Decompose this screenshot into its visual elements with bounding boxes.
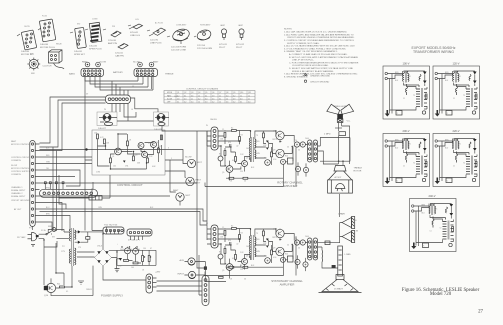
- svg-text:6.0: 6.0: [205, 98, 207, 100]
- svg-text:AT OUT: AT OUT: [14, 208, 22, 211]
- svg-text:MOTOR PLUG: MOTOR PLUG: [40, 47, 55, 49]
- svg-text:27: 27: [478, 310, 483, 315]
- svg-text:PILOT: PILOT: [236, 47, 243, 49]
- svg-text:TREBLE: TREBLE: [165, 74, 174, 76]
- svg-text:0.2: 0.2: [198, 98, 200, 100]
- svg-text:FAST: FAST: [196, 179, 202, 182]
- svg-text:0.4: 0.4: [191, 102, 193, 104]
- svg-text:145-032: 145-032: [89, 46, 98, 48]
- svg-text:CR9: CR9: [118, 266, 121, 268]
- svg-text:D. SELECT SLM CAP BATTELY-STRI: D. SELECT SLM CAP BATTELY-STRIP, VOLTAGE…: [289, 67, 353, 70]
- svg-text:0.1: 0.1: [66, 291, 68, 293]
- svg-text:CONTROL CIRCUIT: CONTROL CIRCUIT: [117, 183, 143, 187]
- lamp bulb 1: [219, 29, 228, 46]
- svg-text:COMMON: COMMON: [11, 160, 21, 162]
- svg-text:CIRCUIT GROUND UNLESS OTHERWIS: CIRCUIT GROUND UNLESS OTHERWISE NOTED AS…: [287, 36, 355, 39]
- driver terminals: [335, 123, 350, 165]
- rectifier diode CR3: [78, 230, 81, 233]
- svg-text:WHT: WHT: [46, 194, 50, 196]
- power switch S2: [47, 231, 52, 234]
- svg-text:P6: P6: [104, 109, 106, 111]
- svg-text:0.3: 0.3: [184, 98, 186, 100]
- transformer box 100V: [383, 66, 430, 119]
- crossover cap C33: [303, 262, 308, 267]
- voltage table: [164, 88, 255, 104]
- svg-text:SHLD: SHLD: [46, 187, 51, 189]
- svg-text:AMP PIN: AMP PIN: [108, 42, 117, 45]
- svg-text:122-153 HORN: 122-153 HORN: [171, 47, 186, 49]
- svg-text:Q6: Q6: [212, 92, 214, 94]
- pad tap resistor: [332, 265, 336, 268]
- tweeter cone 2: [342, 231, 355, 243]
- svg-text:072-012: 072-012: [236, 44, 245, 46]
- svg-text:HORN ASSY: HORN ASSY: [200, 24, 211, 27]
- svg-text:AMPLIFIER: AMPLIFIER: [283, 184, 298, 188]
- resistor R2: [104, 139, 106, 144]
- svg-text:Q2: Q2: [148, 143, 150, 145]
- svg-text:CR1: CR1: [125, 166, 128, 168]
- svg-text:2N3055: 2N3055: [86, 289, 92, 291]
- tweeter cone 1: [342, 217, 355, 229]
- resistor R41: [148, 256, 150, 262]
- svg-text:12: 12: [198, 95, 200, 97]
- top row part numbers: [24, 16, 244, 56]
- wire relays link: [117, 112, 154, 121]
- svg-text:WOOFER: WOOFER: [334, 291, 344, 293]
- svg-text:072-011: 072-011: [219, 44, 228, 46]
- svg-text:100: 100: [131, 267, 134, 269]
- svg-text:C. FOR OTHER FASTENER AFTER FI: C. FOR OTHER FASTENER AFTER FITS SELECT …: [289, 61, 359, 64]
- svg-text:1.1: 1.1: [240, 95, 242, 97]
- svg-text:LAMP: LAMP: [238, 24, 244, 27]
- svg-text:MOTOR CONTROL: MOTOR CONTROL: [11, 144, 30, 146]
- resistor R5: [133, 156, 135, 161]
- crossover cap C30: [295, 166, 300, 171]
- svg-text:ROTOR: ROTOR: [354, 171, 362, 173]
- wire horn feed: [338, 136, 340, 165]
- input jack CH2: [178, 271, 196, 278]
- svg-text:LINE, IF SET IN FULL.: LINE, IF SET IN FULL.: [292, 60, 315, 62]
- resistor R4: [127, 141, 129, 146]
- horn driver block: [337, 114, 343, 119]
- pilot lamp assembly 2: [196, 28, 212, 47]
- striped connector block: [89, 22, 102, 47]
- svg-text:SLOW: SLOW: [133, 62, 140, 64]
- svg-text:0.1: 0.1: [219, 98, 221, 100]
- svg-text:0.9: 0.9: [233, 98, 235, 100]
- svg-text:AC PLUG: AC PLUG: [155, 22, 163, 25]
- svg-text:6.3: 6.3: [240, 98, 242, 100]
- svg-text:220-V: 220-V: [453, 129, 460, 133]
- svg-text:123-010: 123-010: [108, 40, 117, 42]
- svg-text:6.2: 6.2: [233, 95, 235, 97]
- svg-text:146-027: 146-027: [98, 128, 107, 130]
- svg-text:0.4: 0.4: [226, 95, 228, 97]
- input divider resistor: [204, 266, 207, 269]
- svg-text:Q5: Q5: [205, 92, 207, 94]
- svg-text:0.5: 0.5: [212, 98, 214, 100]
- rotor bell assembly: [328, 166, 353, 194]
- svg-text:CIRCUIT GROUND: CIRCUIT GROUND: [310, 81, 330, 83]
- svg-text:LINE PLUG: LINE PLUG: [150, 42, 162, 44]
- svg-text:MOT: MOT: [186, 195, 192, 197]
- svg-text:123-011: 123-011: [115, 53, 124, 55]
- rotary switch wafer: [27, 58, 40, 75]
- svg-text:070-041: 070-041: [130, 32, 139, 34]
- notes text block: [284, 29, 359, 84]
- svg-text:Q1: Q1: [177, 92, 179, 94]
- svg-text:2. ALL FIXED CAPS. AND SMALLER: 2. ALL FIXED CAPS. AND SMALLER VALUES AR…: [284, 33, 354, 36]
- socket strip: [74, 27, 88, 53]
- svg-text:11: 11: [248, 98, 250, 100]
- svg-text:B. SET 6-/7- MOTORS, APPLY APP: B. SET 6-/7- MOTORS, APPLY APPROXIMATELY…: [289, 56, 359, 59]
- relay K2: [154, 112, 170, 131]
- svg-text:SLOW: SLOW: [100, 62, 107, 64]
- svg-text:PLUG: PLUG: [42, 16, 47, 18]
- svg-text:CR5-8: CR5-8: [97, 246, 102, 248]
- svg-text:146-035: 146-035: [21, 51, 30, 53]
- resistor R43: [133, 262, 138, 264]
- svg-text:LINE LUG: LINE LUG: [130, 35, 140, 37]
- woofer magnet: [336, 275, 344, 280]
- rectifier wires: [75, 232, 103, 242]
- svg-text:12: 12: [198, 102, 200, 104]
- svg-text:100: 100: [113, 166, 116, 168]
- svg-text:CONN: CONN: [92, 19, 98, 21]
- svg-text:AMPLIFIER: AMPLIFIER: [280, 283, 295, 287]
- horn right wing: [341, 104, 354, 114]
- svg-text:SLOW: SLOW: [11, 165, 17, 167]
- relay K1: [97, 112, 117, 130]
- svg-text:8. GROUND SYMBOLS:: 8. GROUND SYMBOLS:: [284, 76, 308, 78]
- svg-text:470: 470: [159, 146, 162, 148]
- console multipin connector: [40, 182, 98, 209]
- resistor R42: [124, 260, 129, 262]
- svg-text:Q3: Q3: [191, 92, 193, 94]
- svg-text:CHANNEL 1: CHANNEL 1: [11, 186, 23, 189]
- svg-text:122-070: 122-070: [150, 40, 159, 42]
- knob SLOW (bass): [96, 62, 101, 67]
- svg-text:1 PAIR: 1 PAIR: [338, 213, 345, 216]
- svg-text:2 MFD: 2 MFD: [324, 134, 331, 136]
- transformer box 120V: [433, 66, 480, 119]
- speaker column wires: [338, 246, 343, 276]
- junction blob: [85, 148, 87, 150]
- connector plug P1 (9-pin): [39, 19, 55, 46]
- svg-text:120-V: 120-V: [453, 62, 460, 66]
- svg-text:FAST: FAST: [11, 140, 17, 143]
- svg-text:SLOW: SLOW: [185, 157, 192, 159]
- svg-text:Q3: Q3: [135, 155, 137, 157]
- transformer box 240V: [410, 199, 457, 252]
- transistor Q4: [151, 142, 157, 148]
- woofer cone: [319, 280, 362, 293]
- series cap: [325, 241, 330, 245]
- svg-text:SPKR PLUG: SPKR PLUG: [89, 48, 102, 50]
- connector top stubs: [45, 182, 93, 189]
- stationary output wires: [298, 223, 343, 272]
- terminal strip TS2: [127, 229, 152, 242]
- strip labels: [11, 140, 31, 211]
- control internal wires: [98, 134, 162, 169]
- svg-text:12: 12: [219, 102, 221, 104]
- power supply value labels: [41, 229, 152, 293]
- diode CR1: [123, 161, 126, 163]
- svg-text:0.6: 0.6: [191, 95, 193, 97]
- pilot lamp assembly 1: [171, 27, 191, 48]
- crossover cap C32: [295, 259, 300, 264]
- svg-text:MODE: MODE: [167, 92, 173, 94]
- svg-text:0.2: 0.2: [233, 102, 235, 104]
- svg-text:122-153 CONE: 122-153 CONE: [171, 49, 186, 51]
- transistor Q1: [115, 148, 122, 155]
- svg-text:12: 12: [226, 98, 228, 100]
- svg-text:6. WHERE "FAST / SLOW" INDICAT: 6. WHERE "FAST / SLOW" INDICATED SEPARAT…: [284, 50, 338, 53]
- power transformer T1: [62, 228, 76, 266]
- svg-text:COM: COM: [96, 172, 101, 174]
- svg-text:Q2: Q2: [184, 92, 186, 94]
- crossover cap C31: [303, 167, 308, 172]
- svg-text:2000: 2000: [120, 249, 124, 251]
- terminal block TB2: [59, 175, 110, 200]
- svg-text:MOT: MOT: [197, 162, 203, 164]
- svg-text:CAB PIN: CAB PIN: [115, 54, 124, 57]
- svg-text:+28V: +28V: [155, 272, 161, 274]
- svg-text:Q4: Q4: [156, 142, 158, 144]
- small plug a: [108, 31, 121, 42]
- svg-text:L PAD: L PAD: [345, 253, 351, 256]
- svg-text:11: 11: [191, 98, 193, 100]
- svg-text:SW: SW: [30, 54, 33, 56]
- relay box (3D): [43, 50, 65, 69]
- knob FAST (treble): [149, 62, 154, 67]
- svg-text:2000: 2000: [128, 249, 132, 251]
- stationary feedback rail: [205, 236, 296, 275]
- svg-text:0.6: 0.6: [226, 102, 228, 104]
- svg-text:15 WATT: 15 WATT: [334, 288, 344, 291]
- svg-text:Model 720: Model 720: [430, 292, 452, 297]
- svg-text:I.D.8-WITH FORCE HOLDING LEAD.: I.D.8-WITH FORCE HOLDING LEAD.: [292, 64, 329, 67]
- driver base box: [337, 119, 343, 123]
- transistor Q3: [142, 152, 148, 158]
- rotary channel amplifier circuit: [206, 125, 318, 183]
- svg-text:5.9: 5.9: [212, 95, 214, 97]
- svg-text:145-031: 145-031: [74, 51, 83, 53]
- rotary speaker wires: [294, 138, 351, 177]
- svg-text:200-V: 200-V: [403, 129, 410, 133]
- power supply wires: [39, 189, 156, 296]
- svg-text:240-V: 240-V: [429, 194, 436, 198]
- bridge rectifier CR5-8: [95, 249, 112, 266]
- wires to motors: [165, 160, 187, 206]
- svg-text:TRANSFORMER WIRING: TRANSFORMER WIRING: [413, 50, 454, 54]
- svg-text:SIGNAL INPUT: SIGNAL INPUT: [11, 195, 26, 198]
- transistor Q2: [138, 143, 144, 149]
- svg-text:SPKR SKT: SPKR SKT: [74, 54, 85, 56]
- svg-text:Q9: Q9: [233, 92, 235, 94]
- svg-text:BASS: BASS: [69, 73, 75, 76]
- svg-text:FAST: FAST: [82, 61, 88, 64]
- motor M1 slow: [185, 157, 203, 168]
- matching pad box: [339, 132, 346, 136]
- resistor R3: [110, 158, 112, 163]
- connector socket S1 (9-pin): [21, 30, 37, 53]
- svg-text:11: 11: [219, 95, 221, 97]
- svg-text:117 VAC: 117 VAC: [17, 236, 26, 239]
- svg-text:TS1 TS2 TS3: TS1 TS2 TS3: [104, 225, 118, 227]
- svg-text:1. ALL CAP. VALUES IN MF, 25 V: 1. ALL CAP. VALUES IN MF, 25 VOLTS D.C. …: [284, 31, 348, 34]
- svg-text:CLUTCH: CLUTCH: [43, 66, 52, 68]
- svg-text:CHASSIS GROUND: CHASSIS GROUND: [310, 74, 330, 77]
- leader arrows: [17, 25, 196, 37]
- svg-text:16-PIN: 16-PIN: [24, 26, 30, 28]
- svg-text:INPUT: INPUT: [178, 274, 185, 276]
- ground chassis: [78, 281, 84, 284]
- svg-text:AUX: AUX: [180, 259, 185, 262]
- svg-text:150: 150: [143, 248, 146, 250]
- svg-text:R44: R44: [57, 284, 60, 286]
- cable plug: [149, 28, 166, 42]
- svg-text:LUG: LUG: [135, 19, 139, 21]
- svg-text:CAB SIG: CAB SIG: [210, 118, 218, 121]
- svg-text:0.2: 0.2: [212, 102, 214, 104]
- svg-text:5: 5: [171, 158, 172, 160]
- svg-text:A. CONNECT CLEAR LEAD OF PLUG: A. CONNECT CLEAR LEAD OF PLUG AS SMOOTH …: [289, 53, 348, 56]
- svg-text:V.C.: V.C.: [347, 121, 351, 123]
- wires junction down: [112, 104, 128, 113]
- svg-text:6.1: 6.1: [184, 95, 186, 97]
- jack wires: [184, 262, 226, 282]
- resistor R7: [158, 148, 160, 153]
- svg-text:12: 12: [248, 95, 250, 97]
- resistor R6: [147, 158, 149, 163]
- svg-text:RELAY: RELAY: [56, 43, 63, 46]
- chassis ground hatch: [115, 269, 120, 272]
- resistor R44: [60, 286, 65, 288]
- svg-text:5. X VOLT READING TO CHAS. FOR: 5. X VOLT READING TO CHAS. FOR ALL TEST …: [284, 47, 346, 50]
- motor M3: [173, 189, 191, 201]
- svg-text:CONE ASSY: CONE ASSY: [176, 24, 187, 27]
- svg-text:6.1: 6.1: [240, 102, 242, 104]
- svg-text:Q8: Q8: [226, 92, 228, 94]
- svg-text:122-154: 122-154: [197, 45, 206, 47]
- svg-text:SUPPLY COMMON, NOT CHAS.: SUPPLY COMMON, NOT CHAS.: [287, 42, 320, 45]
- junction connector J1: [106, 95, 131, 104]
- svg-text:LAMP: LAMP: [220, 24, 226, 27]
- bus junction to left risers: [40, 97, 340, 232]
- svg-text:SIGNAL INPUT: SIGNAL INPUT: [11, 189, 26, 192]
- svg-text:0.3: 0.3: [205, 102, 207, 104]
- regulator transistor Q14: [44, 283, 56, 297]
- terminal strip BASS: [81, 69, 104, 77]
- svg-text:COMMON: COMMON: [11, 174, 21, 176]
- fuse holder: [129, 24, 143, 34]
- transformer box 200V: [383, 134, 430, 187]
- svg-text:0.1: 0.1: [205, 95, 207, 97]
- svg-text:TREBLE: TREBLE: [354, 168, 363, 170]
- svg-text:100-V: 100-V: [403, 62, 410, 66]
- small plug b: [115, 44, 128, 55]
- power junction dots: [43, 233, 151, 287]
- knob FAST (bass): [85, 62, 90, 67]
- svg-text:CONTROL CIRCUIT VOLTAGES: CONTROL CIRCUIT VOLTAGES: [186, 88, 219, 91]
- transformer box 220V: [433, 134, 480, 187]
- svg-text:146-036: 146-036: [40, 44, 49, 46]
- connector drop wire: [59, 197, 66, 209]
- wire color labels: [46, 86, 218, 215]
- bus junction to amplifiers: [33, 98, 208, 268]
- svg-text:4. ALL DC VOLTAGES MEASURED WI: 4. ALL DC VOLTAGES MEASURED WITH NO SIG.…: [284, 45, 355, 48]
- supply output connector J11: [157, 255, 210, 306]
- terminal strip TREBLE: [134, 69, 158, 77]
- svg-text:MODELS BE SATISFY BLACK WARNIN: MODELS BE SATISFY BLACK WARNING.: [292, 70, 334, 73]
- svg-text:CONTROL SUPPLY: CONTROL SUPPLY: [11, 171, 30, 173]
- motor M2 fast: [186, 177, 202, 185]
- svg-text:3. CONTROL CIRCUIT VOLTAGES AR: 3. CONTROL CIRCUIT VOLTAGES ARE REFERENC…: [284, 39, 355, 42]
- control circuit boundary: [92, 130, 165, 175]
- resistor R1: [97, 134, 99, 139]
- filter cap C21: [133, 248, 139, 254]
- strip pin stubs: [35, 144, 39, 222]
- rectifier diode CR4: [78, 241, 81, 244]
- svg-text:CIRCUIT GROUND: CIRCUIT GROUND: [11, 200, 30, 202]
- zener CR9: [119, 258, 122, 261]
- svg-text:PILOT: PILOT: [219, 47, 226, 49]
- crossover choke L1: [321, 250, 324, 262]
- AC plug: [17, 228, 39, 247]
- svg-text:Q10: Q10: [240, 92, 243, 94]
- svg-text:CONTROL CIRCUIT: CONTROL CIRCUIT: [11, 157, 31, 159]
- svg-text:Q11: Q11: [248, 92, 251, 94]
- input jack CH1: [180, 258, 196, 265]
- svg-text:Q1: Q1: [112, 156, 114, 158]
- svg-text:SW: SW: [52, 237, 55, 239]
- svg-text:0.2: 0.2: [184, 102, 186, 104]
- svg-text:5.8: 5.8: [177, 98, 179, 100]
- console connector strip: [30, 141, 35, 227]
- divider resistor 2: [219, 276, 224, 278]
- horn left wing: [327, 104, 340, 114]
- terminal strip TS1: [103, 225, 124, 235]
- circuit ground glyph: [304, 80, 306, 82]
- resistor R8: [161, 135, 163, 140]
- stationary channel amplifier circuit: [206, 223, 318, 281]
- svg-text:Q4: Q4: [198, 92, 200, 94]
- svg-text:BATTERY: BATTERY: [113, 71, 123, 74]
- svg-text:+: +: [117, 244, 118, 246]
- svg-text:J6: J6: [131, 109, 133, 111]
- svg-text:1000: 1000: [136, 249, 140, 251]
- control value labels: [94, 133, 162, 174]
- svg-text:MOTOR CONTROL: MOTOR CONTROL: [11, 168, 30, 170]
- lamp bulb 2: [236, 29, 245, 46]
- svg-text:NOTES:: NOTES:: [284, 29, 293, 31]
- output connector J10: [146, 272, 161, 294]
- svg-text:CHANNEL 2: CHANNEL 2: [11, 192, 23, 195]
- svg-text:122-154 HORN: 122-154 HORN: [197, 48, 212, 50]
- dropping resistor R39: [86, 237, 90, 240]
- svg-text:0.1: 0.1: [177, 102, 179, 104]
- filter cap C20: [125, 248, 131, 254]
- svg-text:6: 6: [168, 148, 169, 150]
- chassis ground glyph: [303, 73, 308, 76]
- svg-text:Q7: Q7: [219, 92, 221, 94]
- svg-text:YEL: YEL: [46, 168, 49, 170]
- bus wires strips to junction: [85, 77, 153, 161]
- svg-text:47: 47: [150, 248, 152, 250]
- knob SLOW (treble): [138, 62, 143, 67]
- svg-text:0.4: 0.4: [248, 102, 250, 104]
